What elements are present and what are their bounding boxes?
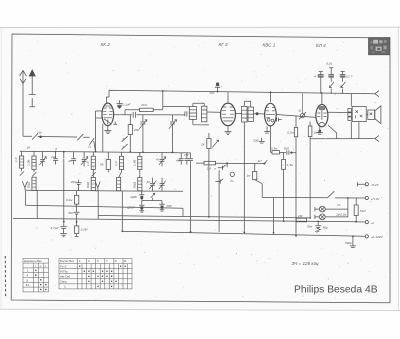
terminal -A xyxy=(356,221,368,224)
electrolytic 500uF below bus xyxy=(350,236,356,247)
cap 26U xyxy=(76,180,82,192)
svg-text:4б: 4б xyxy=(68,159,72,163)
svg-text:Ш: Ш xyxy=(299,109,302,113)
svg-text:4]: 4] xyxy=(156,158,159,162)
svg-text:11: 11 xyxy=(124,259,127,263)
T1 top connector xyxy=(193,103,204,106)
antenna A2 (earth) xyxy=(29,70,36,107)
trimmer capacitor 47 xyxy=(318,72,324,94)
grid-stop wire row y152 xyxy=(271,151,296,153)
cap C00G blob xyxy=(139,203,144,212)
svg-text:0ДФ: 0ДФ xyxy=(131,195,138,199)
svg-text:Ру+3: Ру+3 xyxy=(60,264,67,268)
output transformer + speaker xyxy=(328,94,381,139)
svg-text:50μ: 50μ xyxy=(323,226,328,230)
svg-text:2М: 2М xyxy=(297,214,303,218)
svg-text:180: 180 xyxy=(166,204,171,208)
V3 bypass cap xyxy=(277,118,282,122)
svg-text:1,0: 1,0 xyxy=(14,157,18,162)
rail x64 center xyxy=(63,152,65,222)
resistor 0,2M below bus xyxy=(75,222,79,237)
variable capacitor (tuning) 1 xyxy=(139,115,147,152)
svg-text:48Г: 48Г xyxy=(176,159,181,163)
coil L1 xyxy=(20,151,25,175)
row2 switch b (V contact) xyxy=(95,182,100,191)
IF transformer T1 coil b xyxy=(202,106,221,122)
paper bottom edge xyxy=(0,309,400,310)
svg-text:2φ0,3а: 2φ0,3а xyxy=(335,212,346,216)
svg-text:Б0Д: Б0Д xyxy=(132,181,136,188)
svg-text:5К: 5К xyxy=(100,162,104,166)
cap 4b xyxy=(71,152,76,165)
svg-text:1,0: 1,0 xyxy=(114,161,118,166)
diode E7 tick xyxy=(264,160,267,163)
svg-text:500μ: 500μ xyxy=(345,241,352,245)
coil column stubs xyxy=(93,172,140,178)
resistor 20K horizontal xyxy=(125,108,163,115)
svg-text:КГ 3: КГ 3 xyxy=(219,42,228,47)
capacitor 4,7uF to chassis xyxy=(60,222,67,237)
row2 coil Ld xyxy=(138,178,142,191)
rail x296 down to bottom bus xyxy=(295,153,297,236)
potentiometer 2K xyxy=(207,133,219,149)
svg-text:20Б: 20Б xyxy=(252,139,258,143)
Philips logo box xyxy=(369,38,391,55)
svg-text:0,2М: 0,2М xyxy=(81,228,88,232)
left rail A-G xyxy=(25,191,27,205)
series capacitor C xyxy=(133,112,135,118)
row2 coil La xyxy=(32,177,36,190)
bus A xyxy=(26,205,184,208)
svg-text:Vс: Vс xyxy=(337,203,341,207)
switch 4 xyxy=(77,134,83,140)
antenna A1 xyxy=(20,70,27,136)
paper right edge xyxy=(397,27,399,310)
svg-text:РУПы: РУПы xyxy=(60,269,68,273)
wire antenna input row xyxy=(23,136,96,151)
svg-text:1,0Б: 1,0Б xyxy=(27,160,31,166)
resistor 1M vertical xyxy=(253,164,263,198)
coil L3 xyxy=(91,152,96,176)
svg-text:51Ω: 51Ω xyxy=(360,209,366,213)
wire jack stub xyxy=(226,163,228,167)
IF transformer T1 coil a xyxy=(189,103,209,125)
row2 switch a (V contact) xyxy=(22,181,27,190)
bus junction dots xyxy=(162,90,323,94)
right rail connector top xyxy=(375,91,379,97)
svg-text:Тл: Тл xyxy=(230,179,234,183)
svg-text:5: 5 xyxy=(123,137,125,141)
tap wire xyxy=(142,199,162,201)
V1 pin drop xyxy=(102,124,104,152)
svg-text:3|: 3| xyxy=(88,145,91,149)
rail x219 xyxy=(218,170,220,232)
V1 anode wire with series capacitor xyxy=(113,114,185,116)
rail x244 xyxy=(243,122,245,232)
jack contact a xyxy=(218,165,226,170)
resistor 20K vertical xyxy=(128,115,132,152)
cap 80G on rail xyxy=(74,206,80,222)
tube V3 KVS1 xyxy=(264,92,276,152)
variable capacitor (tuning) 2 xyxy=(169,115,177,152)
coil L2 xyxy=(32,151,37,176)
svg-text:6: 6 xyxy=(123,145,125,149)
jack contact b xyxy=(215,179,223,184)
cap 500 xyxy=(287,150,293,154)
V1 cathode ground xyxy=(104,126,111,134)
wire output row xyxy=(310,138,375,140)
svg-text:50н: 50н xyxy=(307,224,312,228)
svg-text:С2 7: С2 7 xyxy=(346,74,353,78)
wire V3 anode to V4 grid xyxy=(276,115,316,118)
svg-text:1,0: 1,0 xyxy=(86,161,90,166)
IF transformer T2 coil a xyxy=(236,106,247,122)
rail x122 xyxy=(121,191,123,231)
svg-text:ЗЧ = 128 кгц: ЗЧ = 128 кгц xyxy=(292,261,319,266)
jack circle xyxy=(230,172,234,176)
trimmer arrow xyxy=(151,193,155,200)
IF transformer T1 series cap xyxy=(185,111,187,116)
trimmer capacitor 0,01 xyxy=(328,68,334,94)
svg-text:Диапазон Вкл: Диапазон Вкл xyxy=(24,259,42,263)
svg-text:20 К: 20 К xyxy=(140,103,147,107)
resistor 5K xyxy=(106,152,110,172)
svg-text:Е7: Е7 xyxy=(258,159,262,163)
coil L4 xyxy=(119,152,123,172)
node dots mid wire xyxy=(226,162,228,164)
V1 heater bar xyxy=(113,122,117,125)
node 2Ш xyxy=(39,136,42,139)
switch 3 xyxy=(89,138,94,145)
bus C (long) xyxy=(13,218,356,221)
svg-text:Авт.Свб: Авт.Свб xyxy=(60,275,71,279)
paper top edge xyxy=(0,26,400,28)
svg-text:0,01: 0,01 xyxy=(326,62,332,66)
rail x310 down xyxy=(309,139,311,218)
junction dots lower xyxy=(55,151,357,238)
paper left edge xyxy=(0,27,2,309)
wire 20K up to bus xyxy=(163,91,190,110)
svg-text:4 7: 4 7 xyxy=(314,74,319,78)
svg-text:КК 2: КК 2 xyxy=(101,42,111,47)
right rail connector mid xyxy=(375,136,379,142)
rail x190 xyxy=(190,165,192,232)
cap pair 48G a xyxy=(179,153,184,165)
svg-text:2Ш: 2Ш xyxy=(36,131,42,135)
row2 varcap b xyxy=(159,178,166,191)
row2 coil Lc xyxy=(117,178,121,191)
row2 coil Lb xyxy=(91,177,95,190)
tube V2 KG3 xyxy=(221,92,236,135)
value labels xyxy=(14,62,384,246)
dial lamp 1 xyxy=(315,206,348,212)
cap 180 blob xyxy=(159,201,164,212)
switch 5 xyxy=(122,136,128,142)
svg-text:10м: 10м xyxy=(313,130,319,134)
svg-text:1,4Б: 1,4Б xyxy=(132,160,136,166)
svg-text:-Н 2V: -Н 2V xyxy=(371,183,380,187)
T2 coupling cap blob xyxy=(253,112,264,115)
table 1 (left small) xyxy=(23,258,49,292)
terminal +N 2V with switch xyxy=(262,191,368,199)
top bus xyxy=(107,90,375,103)
V1 grid rail down xyxy=(96,111,103,152)
svg-text:КВС 1: КВС 1 xyxy=(263,43,276,48)
resistor 0,1M vertical xyxy=(74,191,78,206)
table 2 (switch positions) xyxy=(59,259,132,289)
svg-text:0,3м: 0,3м xyxy=(271,146,278,150)
switch 1 xyxy=(32,134,38,140)
IF transformer T2 coil b xyxy=(248,107,253,121)
rail x208.9 pot down xyxy=(208,149,210,217)
bus B xyxy=(98,216,310,218)
row2 varcap a xyxy=(149,178,156,191)
svg-text:0,2м: 0,2м xyxy=(287,131,294,135)
trimmer capacitor C27 xyxy=(340,72,346,94)
frame border xyxy=(11,34,390,303)
tube V4 KL4 xyxy=(316,93,337,138)
T2 top connector xyxy=(244,101,250,107)
svg-text:2К: 2К xyxy=(200,143,205,147)
svg-text:2Ш: 2Ш xyxy=(50,155,56,159)
rail x37 xyxy=(36,190,38,218)
svg-text:26У: 26У xyxy=(70,180,77,184)
rail x98 xyxy=(97,191,99,219)
electrolytic 50uF to chassis xyxy=(315,222,321,233)
cap 20B under V3 xyxy=(259,138,265,143)
resistor 0,2M vertical under jack xyxy=(294,116,297,153)
jack Ш xyxy=(299,94,306,120)
svg-text:20К: 20К xyxy=(133,128,139,132)
svg-text:500: 500 xyxy=(284,147,289,151)
svg-text:Б0Д: Б0Д xyxy=(86,181,90,188)
rail x283.6 with resistor 1,5M xyxy=(282,153,286,222)
capacitor 0.1uF to chassis xyxy=(117,100,123,109)
dial lamp 2 xyxy=(315,214,348,220)
varcap bank 2 xyxy=(81,152,88,167)
svg-text:4: 4 xyxy=(55,147,57,151)
cap 20G on bus xyxy=(215,82,220,91)
svg-text:4б: 4б xyxy=(147,180,151,184)
switch 6 xyxy=(122,144,128,150)
terminal -N 2V xyxy=(357,182,368,186)
svg-text:Б0Д: Б0Д xyxy=(27,181,31,188)
svg-text:4,7μF: 4,7μF xyxy=(51,226,60,230)
resistor 0,3M horizontal xyxy=(272,151,280,154)
terminal +A 120V xyxy=(365,235,368,238)
svg-text:20Г: 20Г xyxy=(209,91,215,95)
cap 0DF blob xyxy=(139,191,144,204)
svg-text:КЛ 4: КЛ 4 xyxy=(316,43,326,48)
svg-text:1М: 1М xyxy=(184,153,189,157)
punch marks left margin xyxy=(4,256,6,297)
cap grid right xyxy=(188,153,193,165)
svg-text:-А: -А xyxy=(371,221,374,225)
resistor 51ohm vertical xyxy=(354,198,358,222)
resistor 2M horizontal on bus xyxy=(296,218,306,222)
resistor 10M vertical xyxy=(308,122,312,139)
bus coil-bank bottom xyxy=(25,190,183,191)
cap 5 xyxy=(53,152,58,165)
svg-text:81: 81 xyxy=(26,283,30,287)
svg-text:1,5м: 1,5м xyxy=(287,163,294,167)
resistor 2M horizontal mid xyxy=(196,161,264,165)
svg-text:0,1μF: 0,1μF xyxy=(123,103,132,107)
bottom right title xyxy=(292,261,378,296)
svg-text:0,1м: 0,1м xyxy=(66,198,73,202)
tube type labels xyxy=(101,42,327,48)
bus coil-bank top xyxy=(20,151,191,153)
svg-text:80Г: 80Г xyxy=(69,211,74,215)
svg-text:1б: 1б xyxy=(27,146,31,150)
coil L5 xyxy=(138,152,142,172)
cap pair 48G b xyxy=(184,153,189,165)
svg-text:Волны Вкл: Волны Вкл xyxy=(60,259,74,263)
svg-text:Philips Beseda 4B: Philips Beseda 4B xyxy=(294,285,378,296)
svg-text:Ц00Г: Ц00Г xyxy=(127,206,135,210)
bus D (bottom +A) xyxy=(122,231,365,236)
lamps rail xyxy=(347,198,349,217)
rail x183 xyxy=(182,208,184,216)
svg-text:С: С xyxy=(64,285,66,289)
tube V1 KK2 xyxy=(102,103,114,126)
svg-text:Сврд: Сврд xyxy=(60,280,67,284)
svg-text:2М: 2М xyxy=(206,167,212,171)
svg-text:+Н 2V: +Н 2V xyxy=(371,197,381,201)
varcap bank 3 xyxy=(159,153,166,167)
rail x273.5 xyxy=(273,198,275,233)
varcap bank 1 xyxy=(39,152,46,167)
